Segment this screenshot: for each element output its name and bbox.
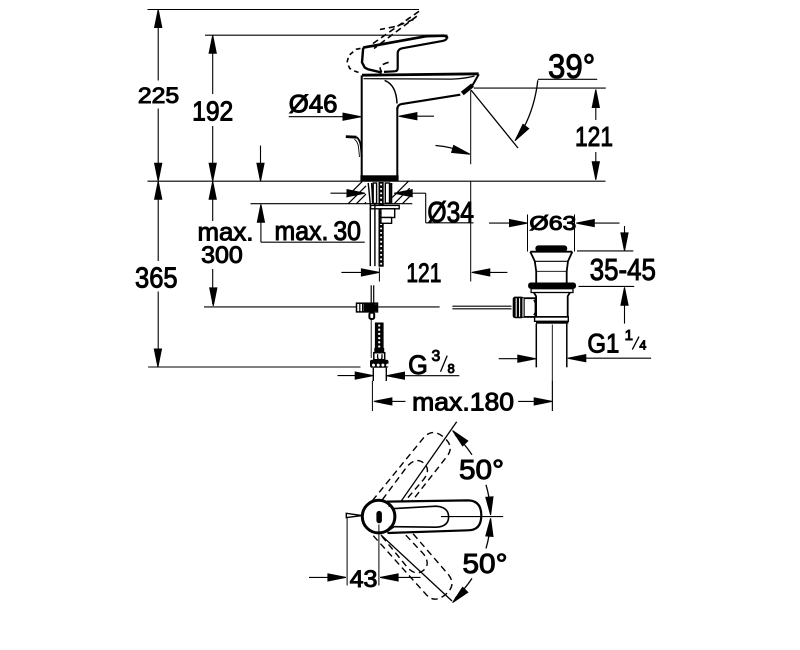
pull rod pin [346, 513, 362, 517]
drain centerline [551, 325, 553, 412]
spout top inner line [364, 76, 475, 79]
dim 3545 arrows [621, 226, 628, 324]
dim Ø63 [489, 220, 620, 227]
supply threaded pipe [375, 323, 384, 349]
dim 43 arrows [309, 574, 421, 581]
lever outline plan [387, 500, 481, 533]
drain flange left [530, 252, 536, 283]
drain Ø63 ext lines [528, 215, 575, 252]
mounting nut step2 [381, 218, 392, 224]
label 39 deg [548, 48, 595, 86]
dim Ø34 left arrow [331, 190, 366, 197]
svg-text:50°: 50° [459, 454, 504, 485]
counter surface line [148, 180, 606, 182]
dim max180 [372, 381, 552, 411]
svg-text:G1: G1 [587, 329, 619, 359]
upper 50 arc b [486, 485, 493, 515]
svg-text:43: 43 [350, 566, 378, 593]
drain seat ring [528, 283, 576, 289]
label 3545 [590, 252, 656, 287]
tee fitting [357, 303, 378, 312]
svg-text:Ø63: Ø63 [529, 212, 576, 235]
dim G114 leader [568, 355, 651, 362]
right tube in hole [385, 183, 391, 203]
dim 43 ext lines [347, 518, 379, 586]
dim G114 left arrow [499, 355, 536, 362]
lower 50 arc b [453, 578, 472, 602]
lever inner contour [394, 506, 449, 527]
shank extension tick [378, 268, 380, 282]
supply pipe collar [374, 348, 384, 353]
rod hairline [370, 319, 372, 358]
label 225 [138, 83, 179, 108]
svg-text:39°: 39° [548, 48, 595, 86]
knurled nut [513, 297, 524, 319]
faucet body left edge [361, 75, 363, 176]
thread texture [380, 183, 382, 264]
svg-text:35-45: 35-45 [590, 252, 656, 287]
svg-text:1: 1 [625, 327, 633, 344]
swivel arc arrow [436, 146, 470, 155]
upper 50 arc a [453, 431, 472, 455]
handle head circle [362, 500, 395, 533]
lever bottom edge [384, 38, 447, 72]
dim max30 lower [257, 204, 365, 242]
svg-text:225: 225 [138, 83, 179, 108]
handle base outline [362, 48, 382, 73]
dashed raised base inner [380, 62, 388, 72]
dim 121 mid arrows [341, 269, 507, 276]
dashed raised handle base [347, 47, 369, 74]
popup rod horizontal line [204, 306, 440, 308]
dim Ø46 right arrow [399, 113, 434, 120]
extension line top (225 ref, y=9.5) [148, 9, 420, 11]
dim Ø46 leader [289, 113, 361, 120]
pull-rod knob [346, 137, 362, 157]
dim 3545 ref1 [577, 250, 633, 252]
tee vertical rod [371, 285, 374, 319]
mounting washer [371, 205, 400, 208]
svg-text:365: 365 [135, 263, 178, 295]
svg-text:121: 121 [406, 258, 441, 288]
threaded shank [379, 182, 384, 267]
supply pipe texture [378, 324, 380, 347]
svg-text:max.180: max.180 [412, 389, 514, 417]
dashed rotated lever down [371, 513, 457, 606]
spout neck curve [385, 80, 397, 103]
label 365 [135, 263, 178, 295]
label 43 [350, 566, 378, 593]
label max stacked [198, 218, 254, 246]
dimension line max30 upper [257, 146, 264, 182]
svg-text:8: 8 [448, 361, 455, 376]
drain flange right [567, 252, 573, 283]
label 121 height [575, 121, 613, 152]
dimension line 192 with arrows [209, 35, 216, 181]
G38 nut [370, 360, 389, 368]
svg-text:50°: 50° [463, 548, 508, 579]
dim Ø34 leader [394, 190, 473, 223]
dashed rotated lever up [372, 428, 458, 521]
rod stub [369, 313, 374, 319]
water stream line [471, 90, 518, 148]
lever tick marks [386, 503, 394, 533]
39 deg ref line [474, 87, 606, 89]
pipe end [373, 368, 386, 381]
aerator extension line [470, 90, 472, 164]
label Ø63 [529, 212, 576, 235]
svg-text:192: 192 [192, 95, 233, 126]
compression box [374, 353, 385, 360]
plan centerline [441, 516, 503, 518]
svg-text:4: 4 [639, 338, 646, 352]
drain tailpipe [536, 324, 567, 368]
dashed raised lever ridge [374, 16, 417, 48]
upper angle line [400, 422, 457, 504]
G38 nut knurl [372, 364, 389, 367]
drain plug cap [535, 245, 567, 251]
bottom ref line 365 [148, 366, 360, 368]
label 50 lower [463, 548, 508, 579]
label 300 stacked [201, 242, 243, 269]
dashed raised lever top edge [369, 11, 419, 46]
hose tube in hole [368, 183, 376, 204]
spout underside [397, 95, 460, 110]
dim G38 arrows [338, 372, 460, 379]
label 121 mid [406, 258, 441, 288]
drain flange top [530, 251, 572, 253]
faucet base plate [361, 176, 398, 181]
faucet body right edge [396, 108, 398, 177]
svg-text:Ø34: Ø34 [427, 197, 474, 229]
counter bottom line [251, 203, 413, 205]
spout tip edge [472, 74, 479, 85]
label Ø34 [427, 197, 474, 229]
drain band2 [536, 321, 568, 323]
drain top extension line [470, 181, 472, 281]
dimension line 225 with arrows [155, 10, 162, 182]
extension line (192 ref, y=35.2) [205, 34, 448, 36]
dim 3545 ref2 [579, 285, 635, 287]
label max180 [412, 389, 514, 417]
hose below counter [370, 204, 375, 266]
label max30 [275, 216, 362, 246]
lower angle line [381, 535, 452, 601]
rod to drain [452, 306, 511, 309]
drain flange lines [535, 261, 568, 271]
mounting nut step1 [381, 209, 395, 218]
drain band1 [535, 317, 569, 321]
lower 50 arc a [486, 518, 493, 548]
svg-text:Ø46: Ø46 [289, 91, 338, 119]
svg-text:300: 300 [201, 242, 243, 269]
svg-text:max. 30: max. 30 [275, 216, 362, 246]
dashed raised lever bottom edge [380, 20, 414, 30]
drain collar [531, 289, 573, 293]
svg-text:121: 121 [575, 121, 613, 152]
dim max300 arrows [209, 181, 217, 306]
label 192 [192, 95, 233, 126]
spout top edge [362, 74, 479, 75]
dim 365 arrows [154, 181, 162, 367]
label Ø46 [289, 91, 338, 119]
label G114 [587, 327, 646, 359]
label G38 [408, 348, 455, 380]
39 deg arc [515, 80, 538, 141]
spout aerator [462, 85, 472, 93]
ball housing [524, 298, 536, 317]
svg-text:G: G [408, 350, 428, 380]
counter hatch left [347, 181, 367, 204]
drain body [534, 293, 570, 317]
39 deg underline [538, 78, 597, 80]
lever top edge [363, 36, 447, 48]
svg-text:3: 3 [432, 348, 441, 365]
dim 121 height arrows [592, 90, 599, 180]
label 50 upper [459, 454, 504, 485]
counter hatch right [392, 181, 409, 204]
temp indicator [376, 511, 382, 523]
